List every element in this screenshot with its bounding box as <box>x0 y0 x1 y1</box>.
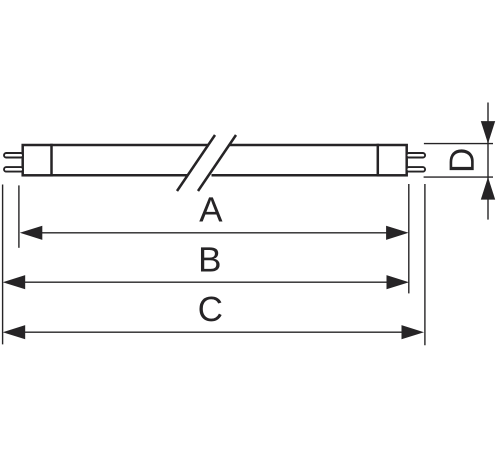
tube top outline (right of break) <box>230 144 379 147</box>
label A <box>199 197 222 221</box>
break slash 2 <box>198 135 236 191</box>
dimension line C <box>3 325 424 339</box>
label B <box>201 247 220 271</box>
tube bottom outline (left of break) <box>50 174 187 177</box>
pin left bottom <box>4 167 23 172</box>
lamp cap right <box>378 145 407 175</box>
break slash 1 <box>177 135 215 191</box>
extension line left inner (cap face, for A) <box>18 185 20 247</box>
pin right bottom <box>407 167 426 172</box>
extension line bottom (tube bottom, for D) <box>424 176 493 178</box>
dimension line D <box>481 103 495 220</box>
pin left top <box>4 153 23 158</box>
dimension line B <box>3 275 409 289</box>
extension line top (tube top, for D) <box>424 143 493 145</box>
label C <box>199 297 221 322</box>
lamp cap left <box>23 145 52 175</box>
extension line right inner (cap face, for A and B) <box>408 184 410 293</box>
label D <box>450 149 474 170</box>
tube top outline (left of break) <box>50 144 207 147</box>
tube bottom outline (right of break) <box>212 174 380 177</box>
pin right top <box>407 153 426 158</box>
extension line left outer (pins tip, for B and C) <box>2 185 4 345</box>
extension line right outer (pins tip, for C) <box>424 184 426 345</box>
dimension line A <box>20 226 409 240</box>
